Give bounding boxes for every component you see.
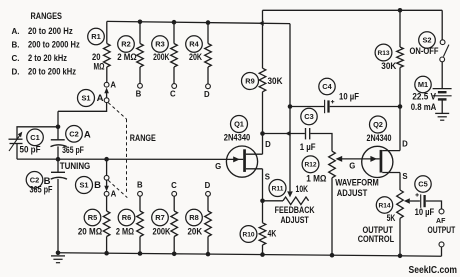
svg-text:G: G: [349, 162, 355, 171]
svg-text:C: C: [171, 181, 177, 190]
svg-text:ON-OFF: ON-OFF: [410, 46, 439, 56]
node terminal C (top): [170, 84, 177, 99]
node bus junction R5: [104, 251, 109, 256]
svg-text:C.: C.: [12, 53, 20, 63]
svg-text:R12: R12: [304, 162, 316, 169]
svg-text:C2: C2: [30, 175, 39, 184]
node AF output terminal (ground): [439, 242, 444, 247]
svg-text:MΩ: MΩ: [94, 62, 105, 72]
wire S2 to battery: [441, 62, 443, 89]
svg-text:A.: A.: [12, 26, 20, 36]
svg-text:ADJUST: ADJUST: [337, 188, 368, 198]
switch S2 ON-OFF: [410, 32, 449, 62]
svg-text:S: S: [265, 173, 270, 182]
resistor R2: [117, 22, 143, 84]
label WAVEFORM ADJUST: [335, 178, 379, 199]
svg-text:R13: R13: [377, 50, 389, 57]
svg-text:Q1: Q1: [234, 120, 244, 129]
label range A: [12, 26, 74, 36]
svg-text:2 MΩ: 2 MΩ: [116, 227, 134, 237]
label TUNING: [60, 161, 91, 171]
svg-text:R2: R2: [121, 40, 130, 49]
resistor R5: [78, 196, 110, 253]
svg-text:10K: 10K: [296, 184, 309, 194]
svg-text:B: B: [136, 89, 142, 98]
ground (main): [51, 256, 65, 263]
node bus junction R10: [260, 252, 265, 257]
resistor R8: [186, 196, 212, 254]
svg-text:5K: 5K: [387, 213, 396, 223]
svg-text:ADJUST: ADJUST: [280, 215, 309, 225]
resistor R9: [242, 68, 284, 92]
node feedback-C4 junction: [288, 104, 293, 109]
node drain tap junction: [260, 131, 265, 136]
svg-text:S1: S1: [79, 181, 88, 190]
svg-text:R3: R3: [155, 40, 164, 49]
node AF output terminal (hot): [439, 209, 444, 214]
svg-text:20K: 20K: [189, 52, 203, 62]
svg-text:S2: S2: [422, 36, 431, 45]
svg-text:2 MΩ: 2 MΩ: [117, 52, 137, 62]
label Q2 gate G: [349, 162, 355, 171]
label OUTPUT CONTROL: [358, 225, 395, 244]
svg-text:C2: C2: [69, 129, 78, 138]
wire C4 line left: [290, 106, 324, 108]
svg-text:D: D: [402, 140, 408, 149]
wire R14 wiper to C5: [404, 198, 420, 204]
switch S1 section B: [76, 159, 110, 193]
svg-text:G: G: [215, 162, 221, 171]
svg-text:4K: 4K: [268, 229, 277, 239]
potentiometer R11 10K: [263, 180, 309, 205]
svg-text:200 to 2000 Hz: 200 to 2000 Hz: [28, 40, 80, 50]
node bus junction R14: [398, 254, 403, 259]
label Q1 gate G: [215, 162, 221, 171]
svg-text:2N4340: 2N4340: [224, 133, 251, 143]
node bus-R3 junction: [172, 20, 177, 25]
svg-text:20K: 20K: [188, 227, 203, 237]
svg-text:C1: C1: [30, 133, 39, 142]
svg-text:FEEDBACK: FEEDBACK: [275, 205, 316, 215]
svg-text:C: C: [170, 90, 176, 99]
svg-text:20: 20: [92, 52, 101, 62]
wire crossover hop at drain column: [259, 21, 264, 26]
svg-text:R1: R1: [91, 32, 100, 41]
node terminal A (bottom): [104, 189, 116, 198]
capacitor C3 1 uF: [300, 108, 317, 152]
svg-text:D: D: [205, 181, 211, 190]
wire V+ top bus: [263, 9, 443, 11]
capacitor C2 section A 365 pF: [51, 126, 91, 155]
svg-text:50 pF: 50 pF: [20, 144, 42, 154]
wire C2B to ground bus: [57, 179, 59, 253]
node terminal A (top): [104, 81, 116, 90]
wire Q2 drain column: [399, 107, 401, 151]
svg-text:SeekIC.com: SeekIC.com: [409, 265, 458, 276]
wire RANGE dashed link (vertical): [126, 119, 128, 193]
node bus junction R7: [172, 252, 177, 257]
resistor R4: [186, 23, 212, 84]
resistor R6: [116, 196, 143, 253]
potentiometer R12 1 MOhm (waveform adjust): [302, 151, 335, 183]
svg-text:WAVEFORM: WAVEFORM: [335, 178, 379, 188]
svg-text:2N4340: 2N4340: [367, 133, 392, 143]
node bus junction R6: [138, 251, 143, 256]
wire ground bus: [58, 253, 442, 256]
svg-text:S: S: [402, 172, 407, 181]
svg-text:365 pF: 365 pF: [30, 184, 54, 194]
svg-text:R6: R6: [122, 213, 131, 222]
wire left column upper: [57, 111, 59, 139]
label Q1 drain D: [265, 140, 271, 149]
svg-text:TUNING: TUNING: [60, 161, 91, 171]
svg-text:22.5 V: 22.5 V: [412, 92, 436, 102]
svg-text:365 pF: 365 pF: [62, 145, 84, 155]
node bus-R4 junction: [206, 20, 211, 25]
svg-text:200K: 200K: [153, 52, 170, 62]
wire feedback column (bank bus to R11 wiper): [289, 24, 291, 192]
wire battery to ground: [441, 99, 443, 113]
label Q2 source S: [402, 172, 407, 181]
wire RANGE dashed link (lower): [108, 180, 127, 197]
svg-text:20 to 200 Hz: 20 to 200 Hz: [28, 26, 73, 36]
switch S1 section A: [78, 88, 110, 107]
svg-text:D.: D.: [12, 67, 20, 77]
svg-text:A: A: [110, 81, 116, 90]
svg-text:30K: 30K: [268, 76, 284, 86]
svg-text:R7: R7: [155, 213, 164, 222]
label AF OUTPUT: [428, 218, 456, 235]
svg-text:0.8 mA: 0.8 mA: [411, 102, 437, 112]
resistor R1: [88, 21, 110, 82]
svg-text:R4: R4: [189, 40, 199, 49]
wire R12 wiper to Q2 gate: [336, 156, 380, 162]
node gate line - S1B junction: [104, 157, 109, 162]
label range C: [12, 53, 68, 63]
svg-text:A: A: [97, 93, 104, 104]
capacitor C4 10 uF: [319, 78, 360, 113]
svg-text:R10: R10: [242, 231, 254, 238]
svg-text:C5: C5: [418, 180, 427, 189]
svg-text:20 MΩ: 20 MΩ: [78, 227, 102, 237]
capacitor C5 10 uF: [415, 176, 435, 217]
svg-text:CONTROL: CONTROL: [358, 234, 395, 244]
resistor R7: [152, 196, 178, 254]
svg-text:OUTPUT: OUTPUT: [428, 225, 456, 235]
wire range-bank bus: [107, 21, 290, 23]
svg-text:R11: R11: [272, 185, 284, 192]
battery M1 22.5 V: [411, 76, 452, 112]
svg-text:R9: R9: [245, 77, 254, 86]
svg-text:2 to 20 kHz: 2 to 20 kHz: [28, 53, 67, 63]
wire R11 wiper arrow: [287, 191, 293, 197]
node terminal D (bottom): [205, 181, 211, 196]
potentiometer R14 5K (output control): [376, 173, 403, 256]
label RANGE: [130, 133, 156, 143]
svg-text:C3: C3: [304, 112, 313, 121]
transistor Q1 2N4340: [224, 116, 263, 178]
svg-text:1 µF: 1 µF: [300, 142, 316, 152]
node terminal B (bottom): [137, 181, 143, 197]
svg-text:S1: S1: [81, 94, 90, 103]
resistor R3: [152, 22, 178, 83]
ground (battery): [435, 113, 449, 120]
node bus-R2 junction: [138, 20, 143, 25]
node terminal B (top): [136, 83, 143, 98]
svg-text:R8: R8: [189, 213, 198, 222]
svg-text:B.: B.: [12, 40, 20, 50]
svg-text:10 µF: 10 µF: [339, 92, 359, 102]
resistor R10: [240, 201, 277, 255]
svg-text:30K: 30K: [381, 61, 397, 71]
node V+ / R13 junction: [398, 8, 403, 13]
svg-text:C4: C4: [322, 82, 332, 91]
node C1 branch junction: [56, 125, 61, 130]
node gate line - tuning junction: [56, 157, 61, 162]
wire R9 to Q1 drain: [262, 92, 264, 154]
svg-text:200K: 200K: [153, 227, 171, 237]
wire crossover hop at drain tap line: [285, 131, 290, 137]
wire C5 to AF output: [426, 201, 442, 209]
wire RANGE dashed link (upper): [108, 103, 126, 119]
label Q2 drain D: [402, 140, 408, 149]
label FEEDBACK ADJUST: [275, 205, 316, 225]
svg-text:D: D: [204, 90, 210, 99]
capacitor C1 50 pF (trimmer): [9, 129, 44, 154]
capacitor C2 section B 365 pF: [26, 172, 67, 195]
wire C1 branch: [17, 127, 58, 139]
node bus junction R12: [330, 253, 335, 258]
svg-text:R14: R14: [378, 202, 390, 209]
wire oscillator gate line: [17, 158, 243, 160]
svg-text:M1: M1: [418, 80, 428, 89]
svg-text:RANGE: RANGE: [130, 133, 156, 143]
wire drain column top: [262, 10, 264, 68]
wire C2A to gate line: [57, 146, 59, 159]
wire S1A pole to tuning node: [58, 103, 107, 112]
svg-text:B: B: [94, 180, 101, 191]
node terminal D (top): [204, 84, 210, 99]
svg-text:20 to 200 kHz: 20 to 200 kHz: [28, 67, 77, 77]
transistor Q2 2N4340: [362, 116, 400, 177]
wire C1 bottom to gate line: [16, 144, 18, 160]
label SeekIC.com watermark: [409, 265, 458, 276]
wire drain tap to C3: [263, 133, 305, 135]
label range B: [12, 40, 81, 50]
svg-text:R5: R5: [88, 213, 97, 222]
wire C4 line right: [330, 106, 400, 108]
svg-text:D: D: [265, 140, 271, 149]
svg-text:B: B: [137, 181, 143, 190]
label range D: [12, 67, 77, 77]
svg-text:RANGES: RANGES: [30, 11, 62, 21]
svg-text:10 µF: 10 µF: [415, 207, 435, 217]
svg-text:A: A: [111, 189, 117, 198]
node terminal C (bottom): [171, 181, 177, 196]
wire Q1 source column: [262, 169, 264, 201]
node source-R11 junction: [260, 199, 265, 204]
label RANGES heading: [30, 11, 62, 21]
svg-text:A: A: [84, 129, 91, 140]
node bus junction R8: [206, 252, 211, 257]
wire V+ bus corner to S2: [441, 10, 443, 40]
wire gate line to C2B: [57, 159, 59, 172]
node bus junction left: [56, 251, 61, 256]
node drain-C4-R13 junction: [398, 104, 403, 109]
resistor R13: [375, 10, 403, 106]
svg-text:1 MΩ: 1 MΩ: [306, 174, 326, 184]
wire C3 to R12: [310, 134, 332, 152]
label Q1 source S: [265, 173, 270, 182]
svg-text:Q2: Q2: [373, 120, 383, 129]
wire AF ground terminal to bus: [441, 247, 443, 256]
wire R12 bottom to ground bus: [331, 178, 333, 255]
